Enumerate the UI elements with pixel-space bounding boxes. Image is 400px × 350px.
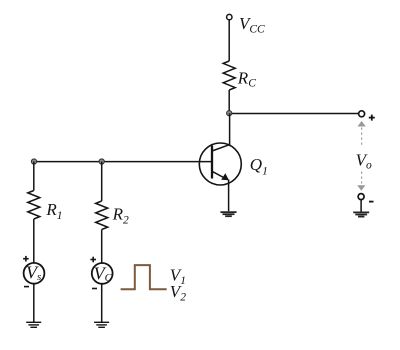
ground left: [26, 322, 41, 327]
terminal VCC: [227, 14, 232, 19]
wire Vs to ground: [33, 284, 35, 322]
wire R2 to Vc: [101, 230, 103, 264]
source Vc: [92, 263, 113, 284]
wire base horizontal: [34, 161, 212, 163]
wire VCC to RC: [228, 20, 230, 61]
resistor R2: [96, 201, 108, 229]
dashed line lower: [361, 172, 363, 184]
wire output to ground: [360, 200, 362, 212]
minus sign output: [369, 201, 374, 203]
wire emitter down: [228, 180, 230, 212]
arrow up gray: [358, 121, 366, 127]
plus sign Vs: [23, 256, 29, 262]
transistor Q1: [199, 143, 241, 185]
resistor R1: [28, 191, 40, 219]
arrow down gray: [357, 185, 365, 191]
ground mid: [94, 322, 109, 327]
dashed line upper: [361, 128, 363, 146]
wire node B to R2: [101, 162, 103, 202]
terminal output plus: [359, 111, 365, 117]
ground right: [353, 212, 369, 216]
node B (R2 top): [99, 159, 104, 164]
node A (R1 top): [31, 159, 36, 164]
wire Vc to ground: [101, 284, 103, 322]
plus sign Vc: [90, 257, 96, 263]
wire RC to node: [228, 90, 230, 114]
node collector junction: [227, 111, 232, 116]
resistor RC: [223, 61, 235, 90]
wire node to output terminal: [229, 113, 358, 115]
wire R1 to Vs: [33, 219, 35, 263]
minus sign Vs: [24, 286, 29, 288]
plus sign output: [369, 115, 375, 121]
terminal output minus: [358, 194, 364, 200]
wire node A to R1: [33, 162, 35, 191]
ground below transistor: [220, 212, 236, 216]
pulse waveform: [121, 265, 167, 289]
minus sign Vc: [92, 288, 97, 290]
source Vs: [24, 263, 45, 284]
wire collector vertical: [229, 113, 231, 145]
